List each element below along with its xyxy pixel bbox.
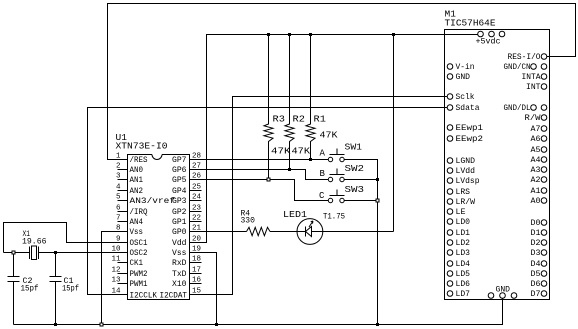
svg-text:7: 7 [116, 215, 121, 223]
svg-text:AN1: AN1 [130, 176, 144, 185]
wire switch common to ground rail [344, 160, 377, 325]
M1 pin EEwp1 [447, 125, 453, 131]
junction at 289.5,169.5 [288, 168, 291, 171]
M1 pin A3 [541, 167, 547, 173]
M1 pin LD5 [447, 271, 453, 277]
svg-text:12: 12 [111, 267, 120, 275]
svg-text:R3: R3 [273, 114, 286, 125]
U1 pin 17 stub [190, 273, 202, 275]
wire U1 pin19 Vss to ground rail [190, 253, 217, 325]
svg-text:/IRQ: /IRQ [130, 208, 148, 217]
svg-text:47K: 47K [271, 146, 291, 157]
junction at 55.5,252.5 [54, 251, 57, 254]
svg-text:OSC2: OSC2 [130, 249, 148, 258]
svg-text:15pf: 15pf [62, 285, 79, 294]
svg-text:16: 16 [192, 277, 202, 285]
svg-text:14: 14 [111, 288, 121, 296]
svg-text:LVdd: LVdd [456, 167, 476, 176]
svg-text:PWM1: PWM1 [130, 280, 148, 289]
M1 pin LD3 [447, 250, 453, 256]
svg-text:LD7: LD7 [456, 290, 471, 299]
svg-text:GP6: GP6 [172, 166, 187, 175]
wire node C: U1 pin26 GP5 to SW3 [190, 180, 329, 201]
wire +5vdc net: U1 pin20 Vdd up and across to M1 +5vdc pad [190, 35, 478, 243]
junction at 289.5,34.5 [288, 33, 291, 36]
svg-text:LD5: LD5 [456, 270, 471, 279]
svg-text:D3: D3 [531, 249, 541, 258]
svg-text:OSC1: OSC1 [130, 239, 148, 248]
svg-text:A7: A7 [531, 125, 541, 134]
svg-text:PWM2: PWM2 [130, 270, 148, 279]
svg-text:/RES: /RES [130, 156, 148, 165]
M1 pin LD6 [447, 281, 453, 287]
svg-text:15pf: 15pf [21, 285, 39, 294]
U1 pin 16 stub [190, 283, 202, 285]
svg-text:X10: X10 [172, 280, 187, 289]
U1 pin 7 stub [118, 221, 128, 223]
svg-text:XTN73E-I0: XTN73E-I0 [116, 141, 168, 152]
M1 pin LD2 [447, 240, 453, 246]
svg-text:10: 10 [111, 246, 121, 254]
svg-text:GP4: GP4 [172, 187, 187, 196]
M1 pin D4 [541, 261, 547, 267]
svg-text:GND: GND [456, 73, 471, 82]
svg-text:330: 330 [241, 217, 256, 226]
svg-text:TIC57H64E: TIC57H64E [445, 18, 496, 29]
svg-text:LD3: LD3 [456, 249, 471, 258]
svg-text:LED1: LED1 [283, 210, 307, 220]
svg-text:23: 23 [192, 205, 202, 213]
svg-text:GP3: GP3 [172, 197, 187, 206]
wire OSC2 / crystal net [4, 252, 128, 254]
M1 bottom GND pads [488, 293, 494, 299]
crystal X1 19.66 [30, 247, 39, 260]
wire OSC1 loop: U1 pin9 left, up, left, down to crystal [4, 223, 128, 253]
capacitor C1 15pf [50, 253, 62, 325]
svg-text:RES-I/O: RES-I/O [508, 53, 541, 62]
M1 pin Sdata [447, 105, 453, 111]
svg-text:AN2: AN2 [130, 187, 144, 196]
M1 pin R/W [541, 115, 547, 121]
switch SW3 [328, 198, 332, 202]
svg-text:Sclk: Sclk [456, 93, 475, 102]
svg-text:19: 19 [192, 246, 201, 254]
svg-text:R/W: R/W [525, 114, 541, 123]
U1 pin 11 stub [118, 262, 128, 264]
svg-text:Vss: Vss [130, 228, 144, 237]
junction at 310.5,34.5 [309, 33, 312, 36]
M1 pin A1 [541, 188, 547, 194]
M1 pin LD1 [447, 230, 453, 236]
resistor R4 330 [247, 227, 271, 235]
wire Sdata net: M1 Sdata across, down, to U1 pin14 I2CCLK [88, 108, 448, 295]
svg-text:GND/CN: GND/CN [504, 63, 531, 72]
svg-text:21: 21 [192, 225, 202, 233]
svg-text:24: 24 [192, 194, 202, 202]
U1 pin 6 stub [118, 211, 128, 213]
open junction at 101.5,324.5 [100, 323, 103, 326]
svg-text:D5: D5 [531, 270, 541, 279]
junction at 55.5,324.5 [54, 323, 57, 326]
svg-text:GP0: GP0 [172, 228, 187, 237]
M1 pin D3 [541, 250, 547, 256]
M1 pin D7 [541, 291, 547, 297]
open junction at 377.5,200.5 [376, 199, 379, 202]
junction at 377.5,179.5 [376, 178, 379, 181]
wire R4 to LED1 [270, 231, 297, 233]
svg-text:GP5: GP5 [172, 176, 187, 185]
svg-text:D6: D6 [531, 280, 541, 289]
svg-text:47K: 47K [292, 146, 311, 157]
M1 pin GND/DL [541, 105, 547, 111]
svg-text:6: 6 [116, 205, 121, 213]
svg-text:A6: A6 [531, 135, 541, 144]
wire Sclk net: M1 Sclk across, down, to U1 pin15 I2CDAT [190, 97, 448, 295]
svg-text:R2: R2 [293, 114, 306, 125]
svg-text:I2CDAT: I2CDAT [160, 292, 188, 301]
svg-text:SW3: SW3 [345, 185, 365, 195]
svg-text:2: 2 [116, 163, 121, 171]
svg-text:A3: A3 [531, 166, 541, 175]
svg-text:D4: D4 [531, 260, 541, 269]
svg-text:D7: D7 [531, 290, 541, 299]
capacitor C2 15pf [8, 253, 20, 325]
junction at 310.5,159.5 [309, 158, 312, 161]
svg-text:GP2: GP2 [172, 208, 187, 217]
svg-text:SW2: SW2 [345, 164, 365, 174]
svg-text:D1: D1 [531, 229, 541, 238]
open junction at 13.5,252.5 [12, 251, 15, 254]
svg-text:A1: A1 [531, 187, 541, 196]
svg-text:28: 28 [192, 153, 201, 161]
svg-text:Vss: Vss [172, 249, 187, 258]
svg-text:20: 20 [192, 236, 202, 244]
svg-text:5: 5 [116, 194, 121, 202]
U1 pin 25 stub [190, 190, 202, 192]
svg-text:25: 25 [192, 184, 202, 192]
svg-text:CK1: CK1 [130, 259, 144, 268]
M1 pin A2 [541, 177, 547, 183]
U1 pin 18 stub [190, 262, 202, 264]
svg-text:TxD: TxD [172, 270, 187, 279]
svg-text:3: 3 [116, 173, 121, 181]
wire LED1 to +5v drop [323, 231, 394, 233]
resistor R1 47K [306, 35, 315, 160]
svg-text:GND/DL: GND/DL [504, 104, 531, 113]
IC U1 XTN73E-I0 body [128, 155, 190, 300]
junction at 216.5,324.5 [215, 323, 218, 326]
M1 +5vdc pads [478, 31, 484, 37]
M1 pin INT [541, 84, 547, 90]
svg-text:LD0: LD0 [456, 218, 471, 227]
U1 pin 5 stub [118, 200, 128, 202]
M1 pin D0 [541, 220, 547, 226]
resistor R3 47K [264, 35, 273, 180]
M1 pin A7 [541, 126, 547, 132]
wire /RES net: U1 pin1 up, across top, down to M1 RES-I/O [108, 4, 576, 160]
svg-text:17: 17 [192, 267, 201, 275]
svg-text:13: 13 [111, 277, 121, 285]
svg-text:I2CCLK: I2CCLK [130, 292, 158, 301]
svg-text:27: 27 [192, 163, 201, 171]
svg-text:D0: D0 [531, 219, 541, 228]
M1 pin Sclk [447, 94, 453, 100]
svg-text:LD6: LD6 [456, 280, 471, 289]
svg-text:GP7: GP7 [172, 156, 187, 165]
M1 pin A0 [541, 198, 547, 204]
svg-text:+5vdc: +5vdc [476, 38, 501, 47]
svg-text:EEwp2: EEwp2 [456, 135, 484, 144]
M1 pin LD7 [447, 291, 453, 297]
M1 pin A5 [541, 147, 547, 153]
U1 pin 2 stub [118, 169, 128, 171]
svg-text:AN4: AN4 [130, 218, 144, 227]
svg-text:B: B [320, 169, 326, 179]
svg-text:INT: INT [526, 83, 541, 92]
M1 pin RES-I/O [541, 54, 547, 60]
svg-text:19.66: 19.66 [22, 238, 47, 247]
svg-text:4: 4 [116, 184, 121, 192]
wire node A: U1 pin28 GP7 to SW1 [190, 159, 329, 161]
M1 pin LRS [447, 189, 453, 195]
svg-text:C: C [319, 191, 325, 201]
U1 pin 24 stub [190, 200, 202, 202]
junction at 393.5,34.5 [392, 33, 395, 36]
M1 pin GND/CN [541, 64, 547, 70]
switch SW1 [328, 157, 332, 161]
svg-text:D2: D2 [531, 239, 541, 248]
svg-text:11: 11 [111, 256, 121, 264]
switch SW2 [328, 177, 332, 181]
svg-text:1: 1 [116, 153, 121, 161]
junction at 268.5,34.5 [267, 33, 270, 36]
svg-text:A0: A0 [531, 197, 541, 206]
svg-text:SW1: SW1 [345, 143, 363, 153]
svg-text:LGND: LGND [456, 157, 476, 166]
svg-text:RxD: RxD [172, 259, 187, 268]
svg-text:A5: A5 [531, 146, 541, 155]
U1 pin 23 stub [190, 211, 202, 213]
svg-text:26: 26 [192, 173, 202, 181]
M1 pin V-in [447, 64, 453, 70]
M1 pin LVdd [447, 168, 453, 174]
U1 pin 22 stub [190, 221, 202, 223]
open junction at 268.5,179.5 [267, 178, 270, 181]
U1 pin 13 stub [118, 283, 128, 285]
svg-text:R1: R1 [314, 114, 327, 125]
M1 pin INTA [541, 74, 547, 80]
svg-text:47K: 47K [320, 130, 338, 141]
svg-text:22: 22 [192, 215, 201, 223]
U1 pin 3 stub [118, 179, 128, 181]
wire ground rail [14, 298, 503, 324]
svg-text:A2: A2 [531, 176, 541, 185]
M1 pin A4 [541, 157, 547, 163]
svg-text:INTA: INTA [522, 73, 541, 82]
svg-text:LE: LE [456, 208, 466, 217]
svg-text:LRS: LRS [456, 188, 471, 197]
M1 pin LE [447, 209, 453, 215]
svg-text:A: A [320, 149, 326, 159]
M1 pin LVdsp [447, 178, 453, 184]
wire U1 pin8 Vss to ground rail [102, 232, 128, 325]
svg-text:15: 15 [192, 288, 202, 296]
svg-text:LR/W: LR/W [456, 198, 476, 207]
svg-text:Sdata: Sdata [456, 104, 480, 113]
M1 pin LD4 [447, 261, 453, 267]
svg-text:9: 9 [116, 236, 121, 244]
svg-text:8: 8 [116, 225, 121, 233]
U1 pin 4 stub [118, 190, 128, 192]
M1 pin A6 [541, 136, 547, 142]
resistor R2 47K [285, 35, 294, 170]
svg-text:AN0: AN0 [130, 166, 144, 175]
M1 pin LGND [447, 158, 453, 164]
svg-text:T1.75: T1.75 [323, 213, 345, 222]
M1 pin LR/W [447, 199, 453, 205]
svg-text:GND: GND [496, 286, 511, 295]
svg-text:LD1: LD1 [456, 229, 471, 238]
svg-text:V-in: V-in [456, 63, 475, 72]
M1 pin EEwp2 [447, 136, 453, 142]
wire +5v drop to LED anode [393, 35, 395, 232]
svg-text:A4: A4 [531, 156, 541, 165]
wire node B: U1 pin27 GP6 to SW2 [190, 170, 329, 180]
module M1 TIC57H64E body [445, 30, 550, 300]
M1 pin D2 [541, 240, 547, 246]
svg-text:GP1: GP1 [172, 218, 187, 227]
wire U1 pin21 GP0 to R4 [190, 231, 247, 233]
svg-text:EEwp1: EEwp1 [456, 124, 484, 133]
LED LED1 T1.75 [297, 219, 323, 245]
M1 pin GND [447, 74, 453, 80]
M1 pin D1 [541, 230, 547, 236]
svg-text:Vdd: Vdd [172, 239, 187, 248]
svg-text:LD2: LD2 [456, 239, 471, 248]
svg-text:LVdsp: LVdsp [456, 177, 480, 186]
svg-text:18: 18 [192, 256, 201, 264]
svg-text:AN3/vref: AN3/vref [130, 197, 176, 206]
svg-text:LD4: LD4 [456, 260, 471, 269]
junction at 377.5,324.5 [376, 323, 379, 326]
U1 pin 12 stub [118, 273, 128, 275]
M1 pin LD0 [447, 219, 453, 225]
M1 pin D5 [541, 271, 547, 277]
M1 pin D6 [541, 281, 547, 287]
